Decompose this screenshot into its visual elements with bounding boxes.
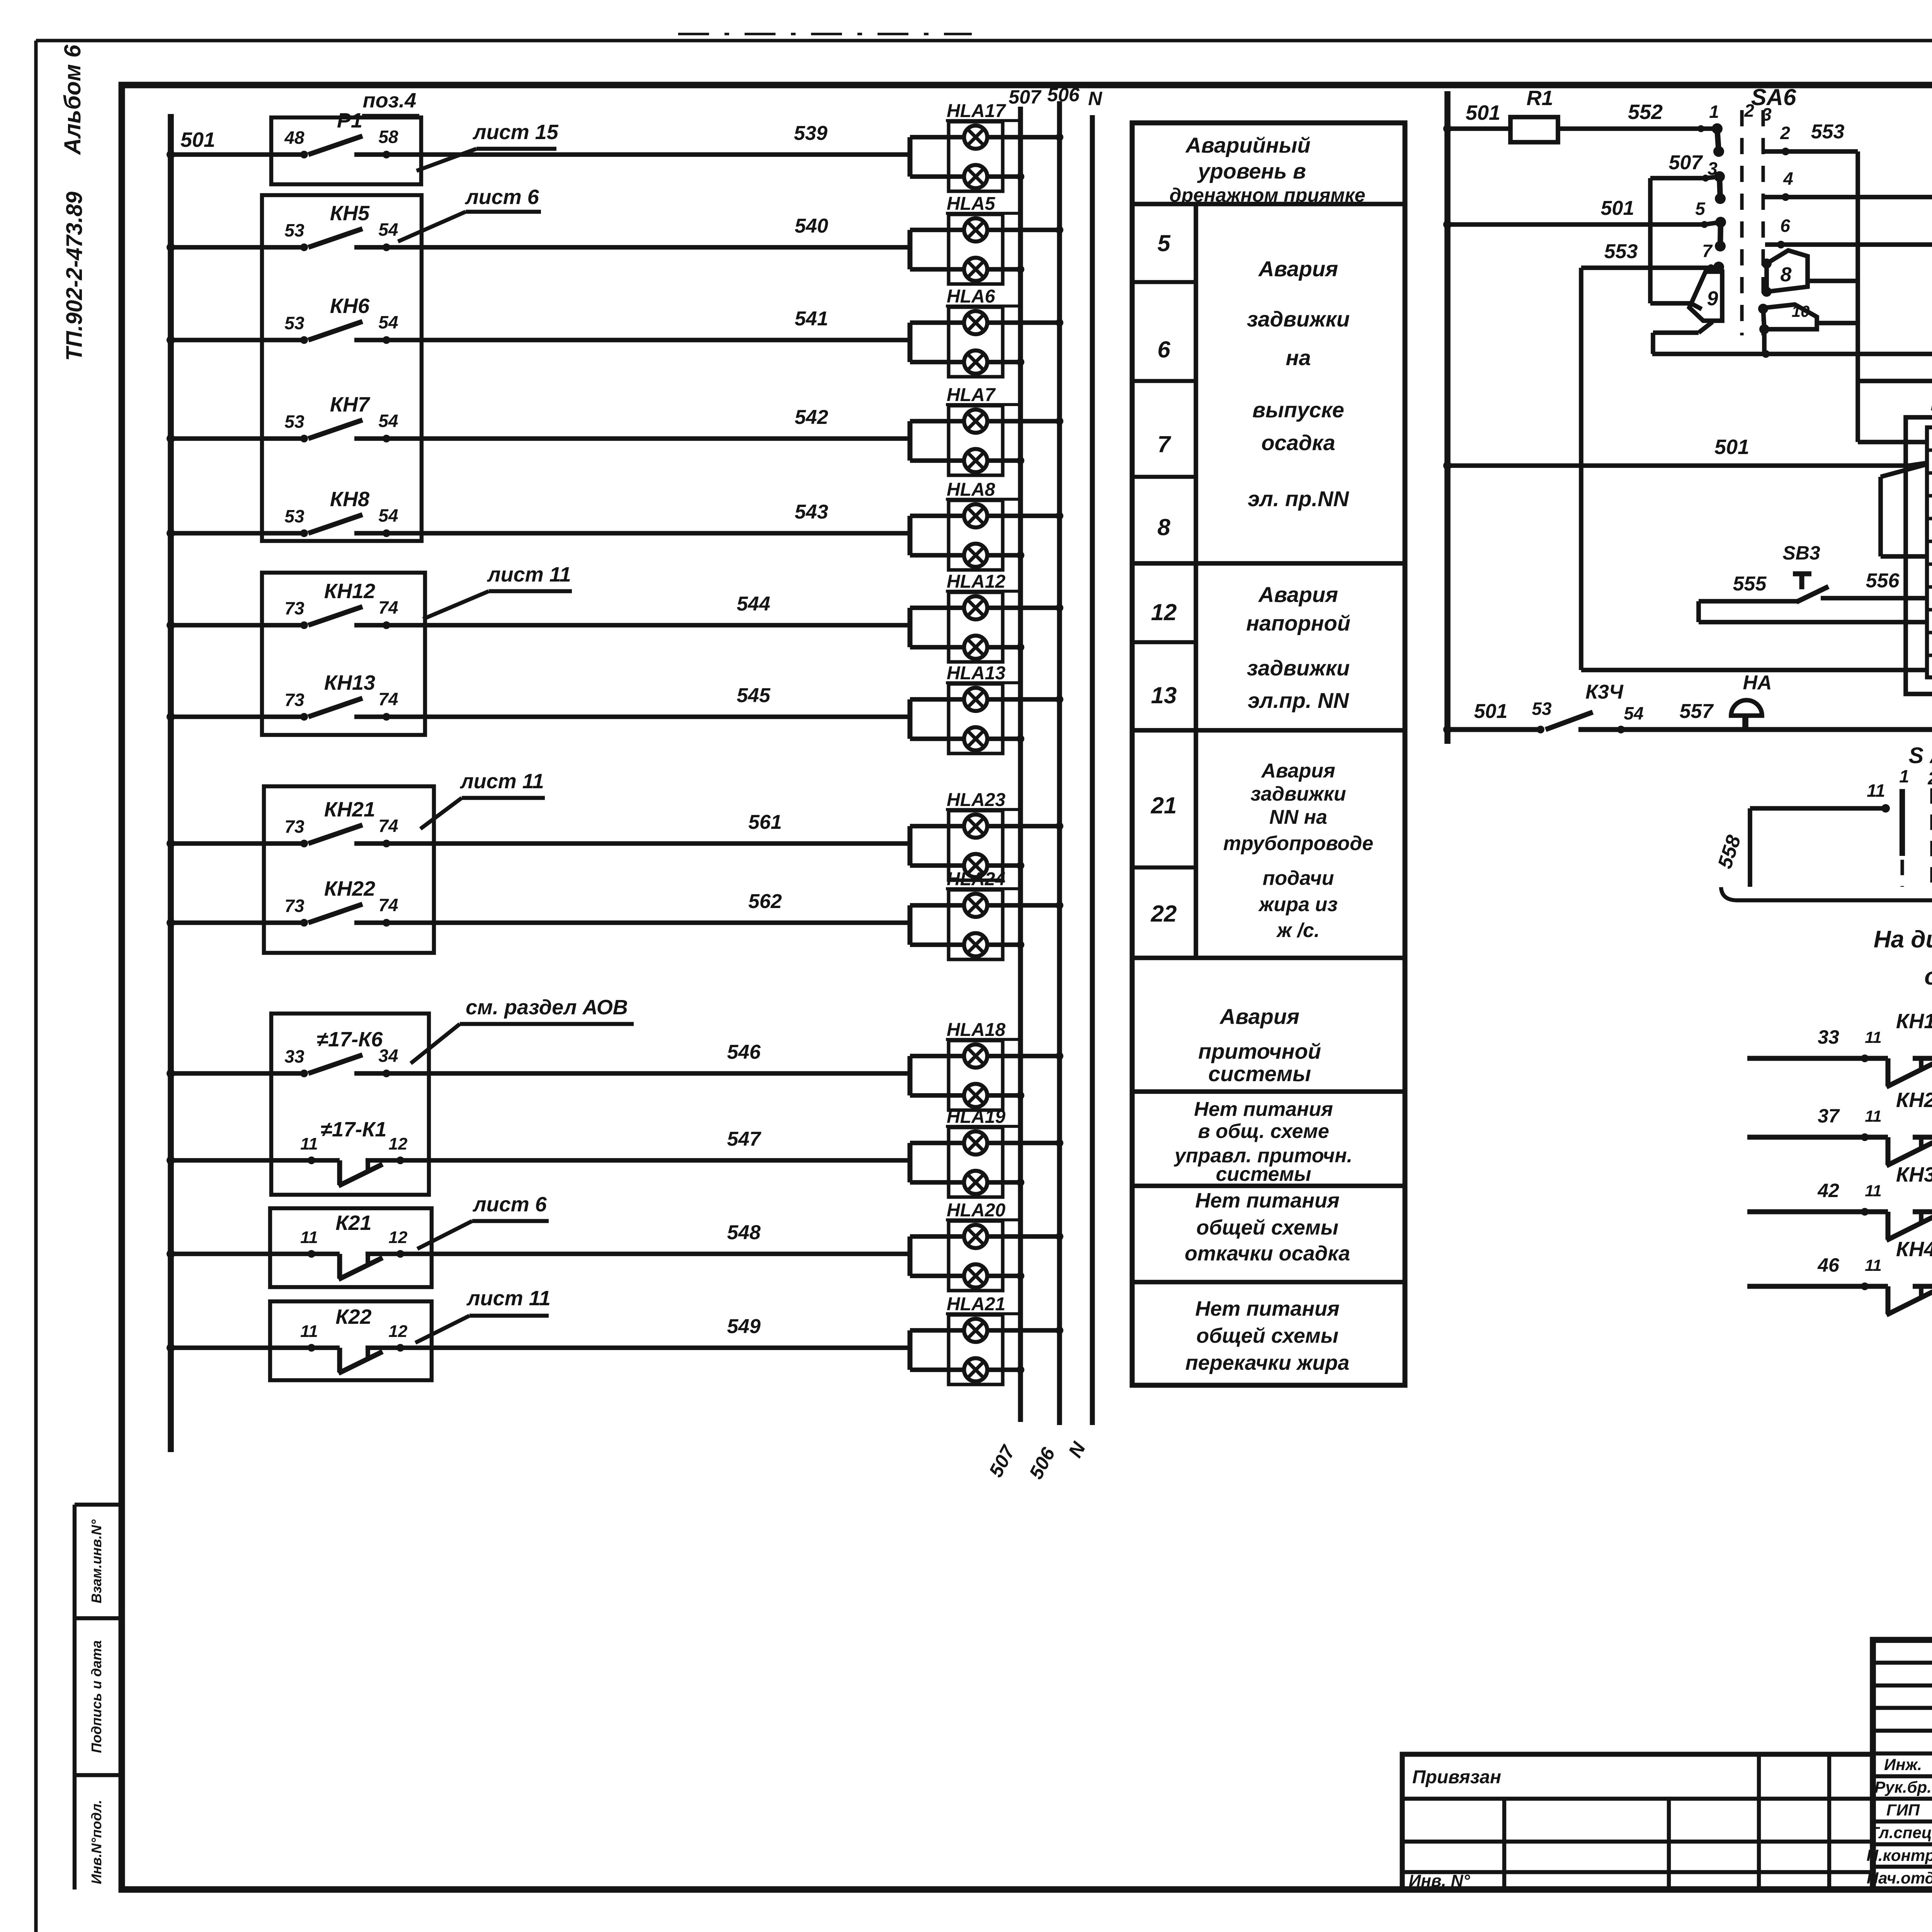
svg-text:501: 501 <box>180 128 215 151</box>
svg-text:5: 5 <box>1157 230 1171 256</box>
svg-text:501: 501 <box>1601 197 1634 219</box>
svg-text:11: 11 <box>1867 781 1885 801</box>
svg-text:дренажном приямке: дренажном приямке <box>1170 184 1366 206</box>
svg-text:см. раздел АОВ: см. раздел АОВ <box>466 996 628 1019</box>
svg-text:549: 549 <box>727 1315 761 1338</box>
svg-text:жира из: жира из <box>1258 893 1337 916</box>
svg-text:общей схемы: общей схемы <box>1196 1216 1338 1239</box>
svg-text:3: 3 <box>1762 104 1772 124</box>
svg-text:553: 553 <box>1604 240 1638 263</box>
svg-text:Подпись и дата: Подпись и дата <box>88 1640 104 1753</box>
svg-text:74: 74 <box>378 816 398 836</box>
svg-text:74: 74 <box>378 689 398 709</box>
svg-text:R1: R1 <box>1526 87 1553 110</box>
svg-text:S А 6: S А 6 <box>1908 743 1932 768</box>
svg-text:подачи: подачи <box>1263 867 1334 889</box>
svg-text:Нет питания: Нет питания <box>1195 1189 1339 1212</box>
svg-text:539: 539 <box>794 122 828 145</box>
svg-text:53: 53 <box>284 412 304 432</box>
svg-text:Альбом 6: Альбом 6 <box>60 44 85 155</box>
svg-text:лист 11: лист 11 <box>466 1287 551 1310</box>
svg-text:501: 501 <box>1466 101 1500 124</box>
svg-text:11: 11 <box>300 1228 318 1247</box>
svg-text:ж /с.: ж /с. <box>1276 919 1320 942</box>
svg-text:11: 11 <box>1865 1256 1882 1274</box>
svg-text:Гл.спец.: Гл.спец. <box>1869 1823 1932 1842</box>
svg-text:HLA19: HLA19 <box>947 1107 1005 1127</box>
svg-text:501: 501 <box>1474 700 1508 723</box>
svg-text:Взам.инв.N°: Взам.инв.N° <box>88 1519 104 1604</box>
svg-text:548: 548 <box>727 1221 761 1244</box>
svg-text:SA6: SA6 <box>1751 84 1796 110</box>
svg-text:22: 22 <box>1151 901 1177 927</box>
svg-text:Нач.отд.: Нач.отд. <box>1867 1869 1932 1887</box>
svg-text:Привязан: Привязан <box>1412 1767 1501 1787</box>
svg-text:53: 53 <box>284 313 304 333</box>
svg-text:561: 561 <box>748 811 782 833</box>
svg-text:21: 21 <box>1151 793 1177 818</box>
svg-text:лист 15: лист 15 <box>472 121 559 144</box>
svg-text:SB3: SB3 <box>1782 542 1820 564</box>
svg-text:8: 8 <box>1781 264 1792 286</box>
svg-text:откачки осадка: откачки осадка <box>1185 1242 1350 1265</box>
svg-text:11: 11 <box>300 1322 318 1341</box>
svg-text:3: 3 <box>1708 158 1718 179</box>
svg-text:КН5: КН5 <box>330 202 370 225</box>
svg-text:Авария: Авария <box>1258 582 1338 607</box>
svg-text:Авария: Авария <box>1219 1004 1299 1029</box>
svg-text:в общ. схеме: в общ. схеме <box>1198 1120 1329 1143</box>
svg-text:осадка: осадка <box>1261 430 1335 455</box>
svg-text:507: 507 <box>1009 86 1042 108</box>
svg-text:КН12: КН12 <box>324 580 375 603</box>
svg-text:КН13: КН13 <box>324 671 375 694</box>
svg-text:HLA6: HLA6 <box>947 286 995 307</box>
svg-text:542: 542 <box>795 406 828 429</box>
svg-text:К22: К22 <box>335 1305 371 1328</box>
svg-text:поз.4: поз.4 <box>363 89 417 112</box>
svg-text:54: 54 <box>378 219 398 240</box>
svg-text:2: 2 <box>1780 123 1790 143</box>
svg-text:HLA18: HLA18 <box>947 1020 1005 1040</box>
svg-text:задвижки: задвижки <box>1250 783 1346 805</box>
svg-text:системы: системы <box>1208 1061 1311 1086</box>
svg-text:приточной: приточной <box>1198 1039 1321 1063</box>
svg-text:4: 4 <box>1783 168 1793 189</box>
svg-text:556: 556 <box>1866 570 1900 592</box>
svg-text:КН2: КН2 <box>1896 1088 1932 1112</box>
svg-text:1: 1 <box>1899 766 1909 786</box>
svg-text:лист 6: лист 6 <box>472 1193 547 1216</box>
svg-text:506: 506 <box>1047 84 1080 105</box>
svg-text:12: 12 <box>389 1322 408 1341</box>
svg-text:HLA24: HLA24 <box>947 869 1005 889</box>
svg-text:6: 6 <box>1780 216 1790 236</box>
svg-text:общей схемы: общей схемы <box>1196 1324 1338 1347</box>
svg-text:544: 544 <box>737 593 770 615</box>
svg-text:7: 7 <box>1157 431 1171 457</box>
svg-text:11: 11 <box>1865 1107 1882 1125</box>
svg-text:задвижки: задвижки <box>1247 656 1350 680</box>
svg-text:HLA8: HLA8 <box>947 480 995 500</box>
svg-text:545: 545 <box>737 684 771 707</box>
svg-text:541: 541 <box>795 308 828 330</box>
svg-text:507: 507 <box>1669 151 1703 174</box>
svg-text:46: 46 <box>1817 1254 1840 1276</box>
svg-text:555: 555 <box>1733 573 1767 595</box>
svg-text:33: 33 <box>1818 1026 1839 1048</box>
svg-text:HLA17: HLA17 <box>947 101 1006 121</box>
svg-text:КН4: КН4 <box>1896 1238 1932 1261</box>
svg-text:33: 33 <box>284 1046 304 1066</box>
svg-text:54: 54 <box>378 312 398 332</box>
svg-text:на: на <box>1286 345 1311 370</box>
svg-text:12: 12 <box>1151 599 1177 625</box>
svg-text:очистных сооружений: очистных сооружений <box>1924 963 1932 990</box>
svg-text:эл. пр.NN: эл. пр.NN <box>1248 486 1349 511</box>
svg-text:562: 562 <box>748 890 782 913</box>
svg-text:58: 58 <box>378 127 398 147</box>
svg-text:КН21: КН21 <box>324 798 375 821</box>
svg-text:73: 73 <box>284 690 304 710</box>
svg-text:системы: системы <box>1216 1163 1311 1185</box>
svg-text:≠17-К1: ≠17-К1 <box>321 1118 387 1141</box>
svg-text:8: 8 <box>1157 514 1170 540</box>
svg-text:уровень в: уровень в <box>1197 159 1306 183</box>
svg-text:540: 540 <box>795 215 828 237</box>
svg-text:трубопроводе: трубопроводе <box>1223 832 1373 855</box>
svg-text:7: 7 <box>1702 241 1713 261</box>
svg-text:Инж.: Инж. <box>1884 1755 1922 1774</box>
svg-text:73: 73 <box>284 598 304 618</box>
svg-text:546: 546 <box>727 1041 761 1063</box>
svg-text:HLA23: HLA23 <box>947 790 1005 810</box>
svg-text:2: 2 <box>1744 100 1754 121</box>
svg-text:лист 11: лист 11 <box>459 770 544 793</box>
svg-text:73: 73 <box>284 896 304 916</box>
svg-text:≠17-К6: ≠17-К6 <box>317 1028 383 1051</box>
svg-text:Рук.бр.: Рук.бр. <box>1874 1778 1932 1796</box>
svg-text:501: 501 <box>1714 435 1749 459</box>
svg-text:КН1: КН1 <box>1896 1010 1932 1033</box>
svg-text:лист 6: лист 6 <box>464 185 539 209</box>
svg-text:6: 6 <box>1157 337 1170 362</box>
svg-text:11: 11 <box>300 1134 318 1153</box>
svg-text:N: N <box>1088 88 1102 109</box>
svg-text:74: 74 <box>378 597 398 617</box>
svg-text:37: 37 <box>1818 1105 1840 1127</box>
svg-text:НА: НА <box>1743 672 1772 694</box>
svg-text:HLA5: HLA5 <box>947 194 996 214</box>
svg-text:КН6: КН6 <box>330 294 370 318</box>
svg-text:42: 42 <box>1817 1180 1839 1201</box>
svg-text:10: 10 <box>1792 302 1810 320</box>
svg-text:Нет питания: Нет питания <box>1194 1098 1333 1121</box>
svg-text:HLA21: HLA21 <box>947 1294 1005 1315</box>
svg-text:13: 13 <box>1151 682 1177 708</box>
svg-text:Авария: Авария <box>1258 257 1338 281</box>
svg-text:выпуске: выпуске <box>1252 398 1344 422</box>
svg-text:34: 34 <box>378 1046 398 1066</box>
svg-text:HLA13: HLA13 <box>947 663 1005 684</box>
svg-text:NN на: NN на <box>1269 806 1327 828</box>
svg-text:11: 11 <box>1865 1182 1882 1200</box>
svg-text:9: 9 <box>1707 287 1718 310</box>
svg-text:Аварийный: Аварийный <box>1185 133 1310 157</box>
svg-text:12: 12 <box>389 1134 408 1153</box>
svg-text:53: 53 <box>1532 699 1552 719</box>
svg-text:54: 54 <box>378 411 398 431</box>
svg-text:КН7: КН7 <box>330 393 371 416</box>
svg-text:53: 53 <box>284 506 304 526</box>
svg-text:КН8: КН8 <box>330 488 369 511</box>
svg-text:HLA12: HLA12 <box>947 571 1005 592</box>
svg-text:543: 543 <box>795 501 828 523</box>
svg-text:553: 553 <box>1811 121 1845 143</box>
svg-text:КН3: КН3 <box>1896 1163 1932 1186</box>
svg-text:48: 48 <box>284 128 304 148</box>
svg-text:P1: P1 <box>337 109 362 132</box>
svg-text:ГИП: ГИП <box>1886 1801 1920 1819</box>
svg-text:Инв. N°: Инв. N° <box>1409 1871 1470 1890</box>
svg-text:552: 552 <box>1628 100 1663 124</box>
svg-text:HLA20: HLA20 <box>947 1200 1005 1221</box>
svg-text:54: 54 <box>378 505 398 526</box>
svg-text:напорной: напорной <box>1246 611 1350 635</box>
svg-text:перекачки жира: перекачки жира <box>1185 1351 1350 1374</box>
svg-text:547: 547 <box>727 1128 762 1150</box>
svg-text:Авария: Авария <box>1260 760 1335 782</box>
svg-text:557: 557 <box>1680 700 1714 723</box>
svg-text:ТП.902-2-473.89: ТП.902-2-473.89 <box>62 192 87 361</box>
svg-text:эл.пр. NN: эл.пр. NN <box>1248 688 1349 713</box>
svg-text:11: 11 <box>1865 1028 1882 1046</box>
svg-text:5: 5 <box>1695 199 1706 219</box>
svg-text:К3Ч: К3Ч <box>1585 681 1624 703</box>
svg-text:12: 12 <box>389 1228 408 1247</box>
svg-text:К21: К21 <box>335 1211 371 1235</box>
svg-text:Инв.N°подл.: Инв.N°подл. <box>88 1800 104 1884</box>
svg-text:HLA7: HLA7 <box>947 385 996 405</box>
svg-text:1: 1 <box>1709 102 1719 122</box>
svg-text:КН22: КН22 <box>324 877 375 900</box>
svg-text:53: 53 <box>284 220 304 240</box>
svg-text:Нет питания: Нет питания <box>1195 1297 1339 1320</box>
svg-text:54: 54 <box>1624 703 1643 723</box>
svg-text:2: 2 <box>1927 768 1932 788</box>
svg-text:КНА: КНА <box>1930 392 1932 415</box>
svg-text:лист 11: лист 11 <box>486 563 571 586</box>
svg-text:Н.контр.: Н.контр. <box>1867 1846 1932 1864</box>
svg-text:74: 74 <box>378 895 398 915</box>
svg-text:На диспетчерский пункт: На диспетчерский пункт <box>1874 926 1932 953</box>
svg-text:73: 73 <box>284 816 304 837</box>
svg-text:задвижки: задвижки <box>1247 307 1350 331</box>
